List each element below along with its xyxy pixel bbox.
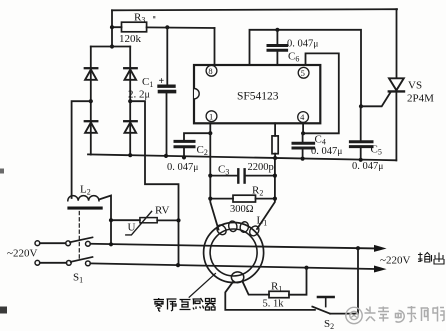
svg-text:R2: R2 <box>252 185 263 198</box>
pin 8 circle <box>206 65 217 76</box>
capacitor C3 <box>210 169 275 182</box>
node R2 right <box>273 197 277 201</box>
node bridge right bottom <box>128 153 132 157</box>
svg-text:5. 1k: 5. 1k <box>263 299 285 310</box>
svg-text:0. 047μ: 0. 047μ <box>352 161 383 172</box>
node bridge top center <box>110 44 114 48</box>
svg-text:2200p: 2200p <box>248 162 274 173</box>
器 <box>205 299 216 311</box>
thyristor VS 2P4M <box>389 9 404 160</box>
IC notch <box>194 89 199 99</box>
wire pin5 loop to pin4 node <box>303 53 339 133</box>
watermark logo circle <box>346 307 362 323</box>
svg-text:S1: S1 <box>73 272 83 285</box>
svg-text:120k: 120k <box>119 33 142 45</box>
diode D3 bottom-left <box>85 121 98 133</box>
svg-text:C3: C3 <box>218 164 229 177</box>
wire pin1 node to C2 <box>184 133 210 140</box>
wire bridge right mid to N jog <box>130 101 178 265</box>
toroid core L1 outer <box>204 223 264 283</box>
node RV left <box>109 218 113 222</box>
capacitor C6 <box>268 30 287 65</box>
wire ground rail <box>88 154 396 160</box>
arrow L output <box>374 245 387 252</box>
node C1 bottom <box>164 154 168 158</box>
node C3 left <box>208 174 212 178</box>
wire top supply rail <box>112 9 397 10</box>
svg-text:R3: R3 <box>134 12 145 25</box>
diode D4 bottom-right <box>124 121 137 133</box>
感 <box>193 298 204 310</box>
node pin1 junction <box>208 131 212 135</box>
svg-text:300Ω: 300Ω <box>230 204 254 215</box>
scan speck near R3 <box>153 16 155 18</box>
pin 5 circle <box>298 67 309 78</box>
resistor R2 <box>210 195 275 202</box>
svg-text:U: U <box>128 222 136 234</box>
watermark text 头条@电力阿鹏 <box>365 306 445 322</box>
terminal input N <box>35 260 40 265</box>
svg-text:0. 047μ: 0. 047μ <box>287 39 318 50</box>
node R1 drop on N line <box>304 266 308 270</box>
wire input N to S1 <box>40 262 67 264</box>
varistor RV <box>111 211 179 235</box>
arrow N output <box>374 266 387 273</box>
switch S1 pole bottom <box>66 257 92 266</box>
toroid core inner <box>210 229 257 276</box>
svg-text:SF54123: SF54123 <box>237 91 279 103</box>
diode D2 top-right <box>124 68 137 80</box>
svg-text:2P4M: 2P4M <box>407 93 434 105</box>
label 输出 (output) hand-drawn <box>418 253 444 265</box>
svg-text:8: 8 <box>208 66 212 76</box>
wire N line through toroid <box>90 263 374 269</box>
svg-text:RV: RV <box>155 205 169 217</box>
node bridge right mid <box>128 99 132 103</box>
svg-text:0. 047μ: 0. 047μ <box>167 162 198 173</box>
wire pin1 node down to L1 <box>210 133 218 229</box>
wire pin4 down <box>302 123 304 133</box>
capacitor C1 <box>159 27 175 156</box>
resistor R3 <box>112 22 215 32</box>
capacitor C2 <box>175 141 194 157</box>
svg-text:L2: L2 <box>80 184 91 197</box>
wire left vertical from top rail to bridge top <box>111 10 113 46</box>
wire pin1 down <box>209 123 211 133</box>
diode D1 top-left <box>85 68 98 80</box>
svg-text:~220V: ~220V <box>7 248 37 260</box>
wire gate node to thyristor gate <box>361 92 391 106</box>
互 <box>180 300 191 310</box>
wire input L to S1 <box>40 242 66 244</box>
switch S1 pole top <box>66 237 93 246</box>
svg-text:5: 5 <box>301 68 305 78</box>
wire test loop right lead to R1 <box>243 282 269 295</box>
resistor R1 <box>269 268 307 298</box>
wire bridge top <box>91 46 130 48</box>
node N drop (bridge AC2) <box>176 263 180 267</box>
terminal input L <box>35 241 40 246</box>
svg-text:C4: C4 <box>315 134 326 147</box>
inductor L2 trip coil <box>67 196 111 245</box>
node C2 bottom <box>182 155 186 159</box>
wire test loop left lead to S2 <box>225 281 315 310</box>
resistor Rt pin2 vertical <box>272 123 278 158</box>
node C1 top tap <box>165 25 169 29</box>
winding L1 loops <box>215 220 261 237</box>
零 <box>154 298 165 312</box>
node gate junction <box>359 104 363 108</box>
test winding loop <box>231 272 243 283</box>
node bridge left mid <box>89 99 93 103</box>
svg-text:VS: VS <box>408 80 422 92</box>
svg-text:C5: C5 <box>371 144 382 157</box>
IC U1 SF54123 body <box>194 65 320 123</box>
pin 4 circle <box>298 112 309 123</box>
svg-text:2. 2μ: 2. 2μ <box>128 89 150 101</box>
node C4 bottom <box>301 157 305 161</box>
node C3 right <box>273 174 277 178</box>
label 零序互感器 hand-drawn <box>154 298 216 312</box>
node RV right <box>176 218 180 222</box>
node R2 left <box>208 197 212 201</box>
node pin4 junction <box>301 131 305 135</box>
序 <box>167 299 177 311</box>
wire bridge left column <box>90 47 92 155</box>
scan speck left edge <box>0 307 7 314</box>
capacitor C5 <box>350 106 372 160</box>
switch S2 test button <box>312 248 358 313</box>
node C6 top tap <box>275 28 279 32</box>
svg-text:R1: R1 <box>271 281 282 294</box>
svg-text:+: + <box>159 76 165 87</box>
svg-text:C1: C1 <box>142 76 153 89</box>
node R3 left junction <box>110 25 114 29</box>
svg-text:C2: C2 <box>197 144 208 157</box>
svg-text:1: 1 <box>209 111 213 121</box>
wire pin7 to gate node <box>250 30 362 107</box>
svg-text:4: 4 <box>300 112 305 122</box>
node Rt bottom rail <box>273 156 277 160</box>
wire right node down to L1 <box>257 158 275 229</box>
pointer line toroid label <box>189 274 215 298</box>
node L2 drop on L line <box>109 242 113 246</box>
svg-text:S2: S2 <box>324 318 334 331</box>
wire L line through toroid <box>90 244 374 249</box>
pin 1 circle <box>206 111 217 122</box>
svg-text:C6: C6 <box>288 51 299 64</box>
svg-text:0. 047μ: 0. 047μ <box>311 146 342 157</box>
wire bridge left mid to L2 <box>72 101 91 198</box>
wire bridge right column <box>129 47 131 155</box>
capacitor C4 <box>293 133 314 159</box>
wire S1 mechanical link dashed <box>78 212 80 260</box>
wire R3 to IC pin 8 <box>214 28 216 65</box>
node S2 drop on L line <box>356 246 360 250</box>
svg-text:~220V: ~220V <box>380 255 410 267</box>
node C5 bottom <box>359 158 363 162</box>
scan speck left edge mid <box>0 169 4 174</box>
